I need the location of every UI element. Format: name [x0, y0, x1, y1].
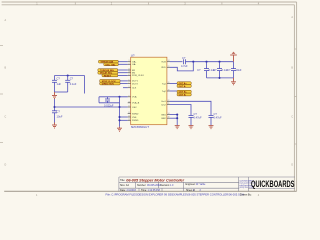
svg-text:RESET: RESET	[104, 75, 112, 77]
svg-text:DCY1: DCY1	[132, 81, 139, 83]
svg-text:06-005-2002: 06-005-2002	[147, 184, 161, 187]
port group P1 row A	[99, 60, 119, 63]
ground GND1	[52, 92, 57, 99]
wire cap bottoms	[55, 91, 68, 93]
IC U? body	[131, 57, 167, 125]
svg-text:Time:: Time:	[141, 189, 147, 192]
wire port2b to pin	[118, 72, 128, 74]
svg-text:Revision:: Revision:	[160, 184, 170, 187]
svg-text:24: 24	[168, 60, 170, 62]
svg-text:Number:: Number:	[137, 184, 147, 187]
IC right pin stubs	[167, 62, 170, 118]
svg-text:OA-: OA-	[132, 63, 136, 66]
svg-text:0.47uF: 0.47uF	[214, 115, 222, 119]
svg-text:SGND: SGND	[132, 113, 139, 115]
svg-text:C?: C?	[213, 68, 217, 72]
svg-text:C?: C?	[182, 56, 186, 60]
svg-text:W. Vahle: W. Vahle	[196, 183, 206, 186]
wire port1a to pin	[118, 61, 127, 63]
junction bottom	[218, 77, 220, 79]
svg-text:VCB: VCB	[161, 62, 166, 64]
zone numbers bottom	[36, 194, 260, 197]
ground GND5	[189, 126, 194, 129]
wire long bus to IC	[55, 106, 128, 108]
size row	[120, 183, 196, 187]
label C3	[57, 109, 63, 118]
ground GND4	[231, 78, 236, 85]
svg-text:CLK: CLK	[132, 88, 137, 90]
svg-text:23: 23	[168, 66, 170, 68]
zone ticks	[0, 2, 297, 144]
svg-text:DIRECTION: DIRECTION	[102, 84, 114, 86]
wire port2a to pin	[118, 69, 128, 71]
svg-text:2/1/2003: 2/1/2003	[127, 189, 137, 192]
capacitor C7 0.1uF	[217, 62, 222, 78]
right pin names	[161, 62, 166, 121]
svg-text:15: 15	[128, 69, 130, 71]
wire pin stub lower	[99, 102, 120, 104]
junction	[118, 116, 120, 118]
svg-text:1uF: 1uF	[57, 82, 62, 86]
svg-text:U?: U?	[131, 53, 135, 57]
svg-text:C: C	[291, 116, 293, 119]
label C6	[197, 68, 215, 72]
svg-text:C?: C?	[214, 112, 218, 116]
wire port1b to pin	[118, 63, 127, 65]
wire left of vcap	[98, 97, 100, 103]
wire net VDD top	[55, 75, 85, 77]
left pin numbers	[128, 60, 130, 121]
wire pins bottom right to col177	[170, 114, 177, 116]
svg-text:9: 9	[129, 95, 130, 97]
capacitor C2 0.1uF	[65, 76, 70, 93]
capacitor C1 1uF	[52, 76, 57, 93]
svg-text:3: 3	[129, 60, 130, 62]
svg-text:C: C	[5, 116, 7, 119]
svg-text:C?: C?	[70, 77, 74, 81]
svg-text:Cm1: Cm1	[161, 101, 166, 103]
zone letters left	[5, 19, 7, 167]
svg-text:13: 13	[128, 119, 130, 121]
svg-text:06-005 Stepper Motor Controlle: 06-005 Stepper Motor Controller	[126, 178, 184, 182]
wire port2c to pin	[118, 74, 128, 76]
svg-text:Size: A4: Size: A4	[120, 184, 129, 187]
svg-text:5: 5	[129, 86, 130, 88]
port group P2 row C	[102, 74, 118, 77]
ground GND2	[52, 123, 57, 129]
wire vertical gnd column	[119, 97, 121, 127]
svg-text:10: 10	[128, 101, 130, 103]
wire port3a to pin	[120, 80, 128, 82]
port group P2 row A	[98, 69, 118, 72]
port group P1 row B	[104, 63, 119, 66]
wire col177	[176, 115, 178, 126]
wire pin 118	[170, 117, 177, 119]
svg-text:17: 17	[128, 74, 130, 76]
svg-text:POR_CLKO: POR_CLKO	[132, 75, 144, 77]
junction	[67, 74, 69, 76]
wire pin stub upper	[99, 96, 128, 98]
svg-text:VDD: VDD	[161, 67, 166, 69]
svg-text:11: 11	[128, 112, 130, 114]
svg-text:Date:: Date:	[120, 189, 126, 192]
right pin numbers	[168, 60, 170, 118]
wire pin connect y117	[120, 116, 128, 118]
junction bus	[118, 106, 120, 108]
port group P3 row B	[100, 82, 120, 85]
label C5	[181, 56, 188, 68]
svg-text:8: 8	[129, 106, 130, 108]
svg-text:4: 4	[129, 63, 130, 65]
svg-text:Cm2: Cm2	[161, 104, 166, 106]
wire pin to port P4	[170, 83, 177, 85]
label C8	[227, 68, 242, 72]
svg-text:QUICKBOARDS: QUICKBOARDS	[251, 178, 295, 189]
wire series cap to rail end	[186, 61, 234, 63]
capacitor C3 10uF	[52, 111, 57, 123]
svg-text:10uF: 10uF	[57, 115, 63, 119]
svg-text:0.1uF: 0.1uF	[70, 82, 77, 86]
svg-text:Drawn By:: Drawn By:	[240, 193, 252, 196]
svg-text:19: 19	[168, 90, 170, 92]
svg-text:C?: C?	[227, 68, 231, 72]
wire pin101 to col211	[170, 101, 211, 115]
zone numbers top	[36, 2, 260, 5]
junction cap F	[205, 61, 207, 63]
wire ground column to bus	[54, 99, 56, 111]
port group P3 row A	[100, 80, 120, 83]
svg-text:7: 7	[129, 82, 130, 84]
svg-text:12: 12	[128, 116, 130, 118]
svg-text:C?: C?	[57, 77, 61, 81]
svg-text:OUT A-: OUT A-	[179, 85, 187, 88]
svg-text:VCA: VCA	[132, 96, 137, 99]
ground GND6	[209, 126, 214, 129]
wire pin2 detour	[170, 62, 193, 71]
wire stub pin y87.7	[123, 87, 128, 89]
svg-text:D: D	[291, 164, 293, 167]
svg-text:18: 18	[168, 117, 170, 119]
capacitor C6 0.1uF	[204, 62, 209, 78]
svg-text:Engineer:: Engineer:	[186, 183, 197, 186]
svg-text:20: 20	[168, 82, 170, 84]
wire pin to series cap	[170, 61, 183, 63]
capacitor C10 on col211	[209, 115, 214, 125]
wire port3b to pin	[120, 83, 128, 85]
capacitor C8 10uF	[231, 62, 236, 78]
ground GND7	[175, 126, 180, 129]
label C10	[214, 112, 222, 119]
label C4 0.022uF	[104, 103, 114, 107]
svg-text:PGND: PGND	[132, 120, 139, 122]
date row	[120, 189, 195, 192]
junction	[176, 117, 178, 119]
svg-text:Title:: Title:	[120, 179, 125, 182]
wire dangling VDD stub	[84, 76, 86, 94]
svg-text:C?: C?	[57, 109, 61, 113]
wire caps bottom rail	[207, 77, 234, 79]
svg-text:OSC: OSC	[132, 107, 137, 109]
svg-text:0.022uF: 0.022uF	[104, 103, 114, 107]
IC left pin stubs	[128, 62, 131, 121]
svg-text:10uF: 10uF	[236, 68, 242, 72]
wire pin to port P5	[170, 90, 177, 92]
port P5 row A	[177, 90, 191, 93]
svg-text:21: 21	[168, 103, 170, 105]
left pin names	[132, 61, 144, 123]
svg-text:SMC6560GUT: SMC6560GUT	[131, 125, 150, 129]
power bar VDD	[230, 55, 237, 62]
svg-text:6: 6	[129, 79, 130, 81]
svg-text:1:12:35 PM: 1:12:35 PM	[148, 189, 160, 192]
label C9	[194, 112, 202, 119]
wire pin104 to col191	[170, 105, 191, 116]
svg-text:File: C:\PROGRAM FILES\DESIGN: File: C:\PROGRAM FILES\DESIGN EXPLORER 9…	[106, 192, 244, 196]
svg-text:VSS: VSS	[132, 117, 137, 119]
ground GND3	[117, 127, 122, 131]
svg-text:D: D	[5, 164, 7, 167]
svg-text:22: 22	[168, 100, 170, 102]
svg-text:DCY2: DCY2	[132, 83, 139, 85]
port P4 row B	[177, 85, 191, 88]
wire pin connect y120.3	[120, 119, 128, 121]
svg-text:OSC_SEL: OSC_SEL	[105, 64, 116, 66]
svg-text:4.7uF: 4.7uF	[181, 64, 188, 68]
junction detour	[192, 61, 194, 63]
capacitor C9 on col191	[189, 115, 194, 125]
zone letters right	[291, 16, 293, 167]
svg-text:OA+: OA+	[132, 61, 137, 64]
svg-text:OUT B-: OUT B-	[179, 94, 187, 96]
svg-text:VCA_B: VCA_B	[132, 102, 140, 105]
junction cap G	[218, 61, 220, 63]
svg-text:14: 14	[168, 113, 170, 115]
svg-text:C?: C?	[194, 112, 198, 116]
junction	[118, 119, 120, 121]
label C1 1uF	[57, 77, 62, 87]
svg-text:16: 16	[128, 71, 130, 73]
sheet background	[0, 0, 300, 198]
svg-text:C?: C?	[197, 68, 201, 72]
svg-text:0.47uF: 0.47uF	[194, 115, 202, 119]
company text block	[239, 179, 256, 189]
capacitor C5 4.7uF series	[184, 59, 186, 64]
junction on bus	[53, 106, 55, 108]
capacitor C4 0.022uF	[105, 97, 110, 103]
junction	[176, 114, 178, 116]
port group P2 row B	[98, 71, 118, 74]
junction upper stub	[118, 96, 120, 98]
port P4 row A	[177, 82, 191, 85]
port P5 row B	[177, 93, 191, 96]
label C7	[213, 68, 228, 72]
sheet frame	[2, 2, 297, 191]
label C2 0.1uF	[70, 77, 77, 87]
